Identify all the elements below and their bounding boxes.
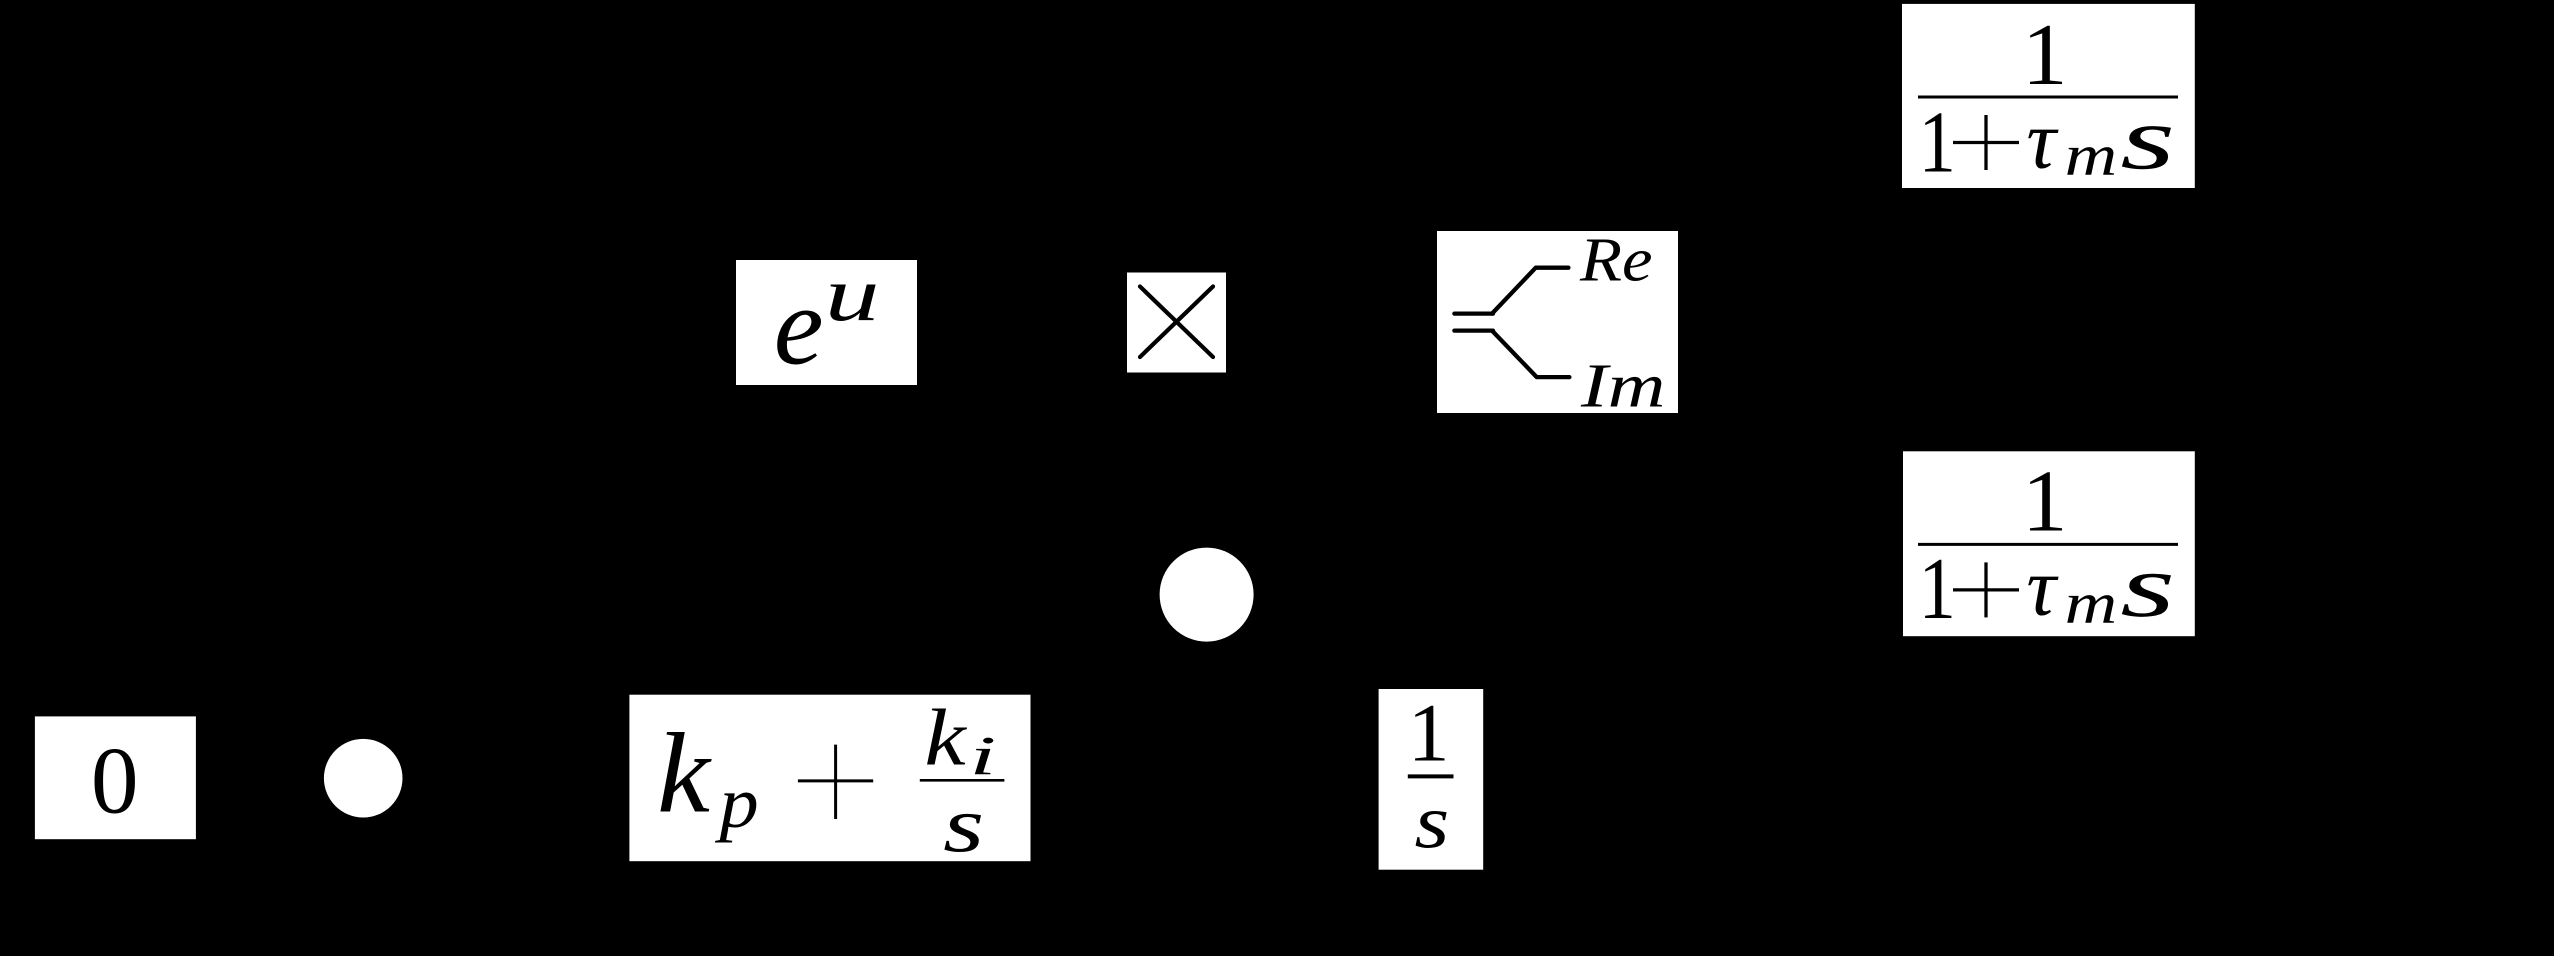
svg-text:τ: τ [2026,94,2059,186]
svg-text:0: 0 [91,728,139,834]
svg-text:s: s [2120,537,2175,636]
svg-text:k: k [657,710,712,837]
svg-text:s: s [1415,778,1450,864]
svg-text:1: 1 [1919,540,1956,638]
svg-text:u: u [825,251,880,337]
svg-text:k: k [924,694,967,782]
block U5: measurement filter 1/(1+tau_m s) (top right) [1902,4,2195,192]
block U7: integrator 1/s [1379,686,1484,869]
block: zero reference constant 0 [35,716,196,839]
svg-text:p: p [714,762,759,843]
block U2: multiplier X [1127,273,1226,373]
svg-text:Re: Re [1579,226,1653,295]
block U3: complex to Re/Im splitter [1437,226,1678,421]
svg-text:s: s [2120,89,2175,188]
svg-text:1: 1 [1408,686,1450,778]
svg-text:τ: τ [2026,540,2059,632]
svg-text:m: m [2065,570,2118,635]
svg-text:1: 1 [2022,6,2068,103]
block U4: PI controller k_p + k_i/s [629,694,1030,869]
svg-text:i: i [969,725,996,786]
svg-text:m: m [2065,123,2118,188]
node: summing junction (left) [324,739,403,818]
svg-text:Im: Im [1580,351,1666,421]
svg-text:1: 1 [2022,453,2068,550]
block U1: exponential e^u [736,251,917,389]
svg-text:1: 1 [1919,94,1956,192]
node: phase node (middle) [1160,548,1254,642]
svg-text:e: e [774,265,824,389]
svg-text:s: s [943,781,984,869]
block U6: measurement filter 1/(1+tau_m s) (right middle) [1903,451,2195,638]
